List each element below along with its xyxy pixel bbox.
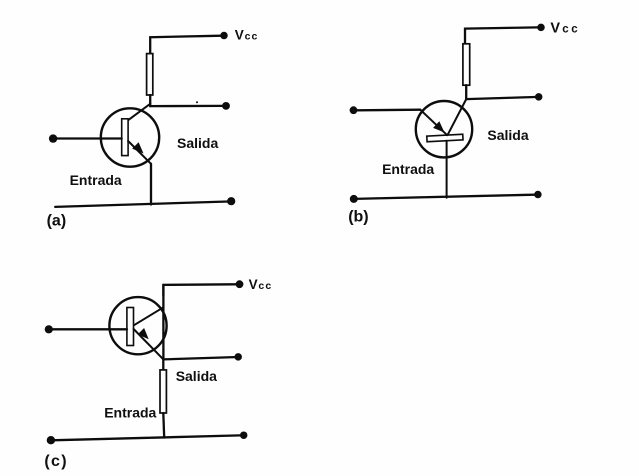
terminal dot Vcc (c)	[236, 280, 244, 288]
terminal dot bottom left (b)	[350, 195, 358, 203]
wire Vcc rail (c)	[163, 284, 235, 296]
svg-text:(b): (b)	[348, 209, 368, 226]
wire below resistor (c)	[162, 413, 165, 438]
transistor Q2 collector lead (b)	[448, 99, 467, 135]
transistor Q1 circle (a)	[101, 108, 159, 166]
wire output line (c)	[163, 357, 234, 359]
transistor Q2 emitter lead (b)	[420, 110, 447, 136]
terminal dot Vcc (b)	[537, 24, 545, 32]
svg-text:Entrada: Entrada	[70, 172, 122, 188]
transistor Q3 base bar (c)	[127, 308, 134, 346]
transistor Q1 emitter lead (a)	[128, 141, 151, 164]
wire output line (b)	[466, 97, 535, 99]
svg-text:Salida: Salida	[176, 368, 217, 384]
svg-text:Entrada: Entrada	[104, 405, 156, 421]
terminal dot input (c)	[45, 325, 53, 333]
wire output line (a)	[150, 105, 222, 107]
terminal dot output (b)	[535, 93, 543, 101]
wire collector-emitter vertical (c)	[162, 285, 164, 360]
svg-text:Entrada: Entrada	[382, 161, 434, 177]
wire base lead down (b)	[446, 141, 448, 198]
wire collector node vertical (b)	[465, 85, 467, 99]
wire base input line (c)	[53, 328, 127, 330]
terminal dot bottom left (c)	[47, 436, 55, 444]
transistor Q1 base bar (a)	[122, 119, 128, 156]
svg-text:Salida: Salida	[177, 135, 218, 151]
transistor Q3 collector lead (c)	[134, 307, 163, 325]
wire bottom rail (a)	[55, 202, 228, 207]
terminal dot Vcc (a)	[220, 32, 228, 40]
wire Vcc rail (a)	[150, 36, 222, 54]
wire bottom rail (c)	[51, 435, 240, 440]
terminal dot output (a)	[222, 102, 230, 110]
svg-text:Vcc: Vcc	[550, 20, 580, 36]
transistor Q3 emitter arrow (c)	[138, 328, 149, 339]
wire Vcc rail (b)	[465, 27, 538, 44]
svg-text:Vcc: Vcc	[235, 28, 259, 43]
wire node to resistor (c)	[162, 359, 164, 370]
transistor Q2 base bar (b)	[427, 134, 463, 141]
transistor Q2 circle (b)	[416, 101, 472, 157]
resistor Rc (a)	[147, 54, 153, 95]
wire base input line (a)	[56, 137, 122, 139]
svg-text:(c): (c)	[44, 453, 67, 470]
wire bottom rail (b)	[354, 195, 535, 199]
terminal dot bottom right (c)	[240, 431, 248, 439]
svg-text:Salida: Salida	[487, 127, 528, 143]
svg-text:Vcc: Vcc	[249, 277, 273, 292]
transistor Q3 circle (c)	[109, 297, 166, 354]
terminal dot output (c)	[234, 353, 242, 361]
svg-text:(a): (a)	[47, 213, 67, 230]
speck (a)	[196, 101, 198, 103]
terminal dot bottom right (a)	[227, 197, 235, 205]
transistor Q1 collector lead (a)	[128, 104, 151, 121]
resistor Rc (b)	[463, 44, 470, 85]
resistor Re (c)	[160, 370, 166, 413]
wire input line (b)	[357, 109, 420, 112]
terminal dot bottom right (b)	[534, 191, 542, 199]
transistor Q1 emitter arrow (a)	[132, 142, 143, 153]
wire emitter down (a)	[150, 164, 152, 205]
transistor Q3 emitter lead (c)	[134, 329, 164, 359]
terminal dot input (b)	[350, 106, 358, 114]
wire collector node vertical (a)	[149, 95, 151, 106]
transistor Q2 emitter arrow (b)	[433, 121, 444, 132]
terminal dot input (a)	[49, 134, 57, 142]
